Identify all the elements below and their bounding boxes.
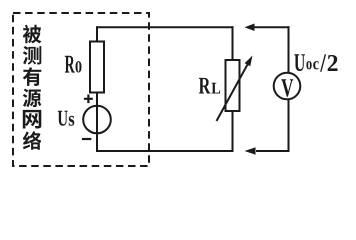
wire: RL branch bottom bbox=[232, 111, 234, 152]
label R0 bbox=[65, 56, 82, 73]
caption char 络 bbox=[23, 131, 41, 150]
arrowhead bottom (points left) bbox=[245, 147, 256, 154]
wire: source branch bottom (through Us) bbox=[96, 92, 98, 152]
wire: voltmeter branch top bbox=[288, 26, 290, 73]
voltage source Us circle bbox=[83, 106, 111, 134]
wire: RL branch top bbox=[232, 26, 234, 60]
arrowhead top (points left) bbox=[245, 24, 255, 31]
resistor RL (variable) bbox=[226, 60, 240, 111]
RL variable arrow bbox=[217, 65, 248, 121]
plus sign of Us bbox=[84, 95, 93, 104]
wire: bottom arrow lead bbox=[256, 150, 290, 152]
wire: top arrow lead bbox=[254, 26, 290, 28]
wire: top rail bbox=[96, 26, 234, 28]
wire: source branch top bbox=[96, 26, 98, 42]
label Uoc/2 bbox=[294, 54, 337, 71]
voltmeter V circle bbox=[274, 73, 301, 100]
caption char 网 bbox=[23, 110, 42, 129]
resistor R0 bbox=[90, 42, 104, 93]
minus sign of Us bbox=[82, 138, 91, 140]
caption char 有 bbox=[23, 67, 42, 86]
wire: voltmeter branch bottom bbox=[288, 99, 290, 152]
caption char 被 bbox=[23, 25, 41, 44]
label RL bbox=[199, 78, 220, 94]
caption char 测 bbox=[23, 46, 42, 65]
label Us bbox=[58, 111, 75, 126]
dashed box: network under test enclosure bbox=[13, 13, 149, 166]
caption char 源 bbox=[23, 89, 41, 108]
wire: bottom rail bbox=[96, 150, 234, 152]
voltmeter letter V bbox=[281, 79, 293, 96]
